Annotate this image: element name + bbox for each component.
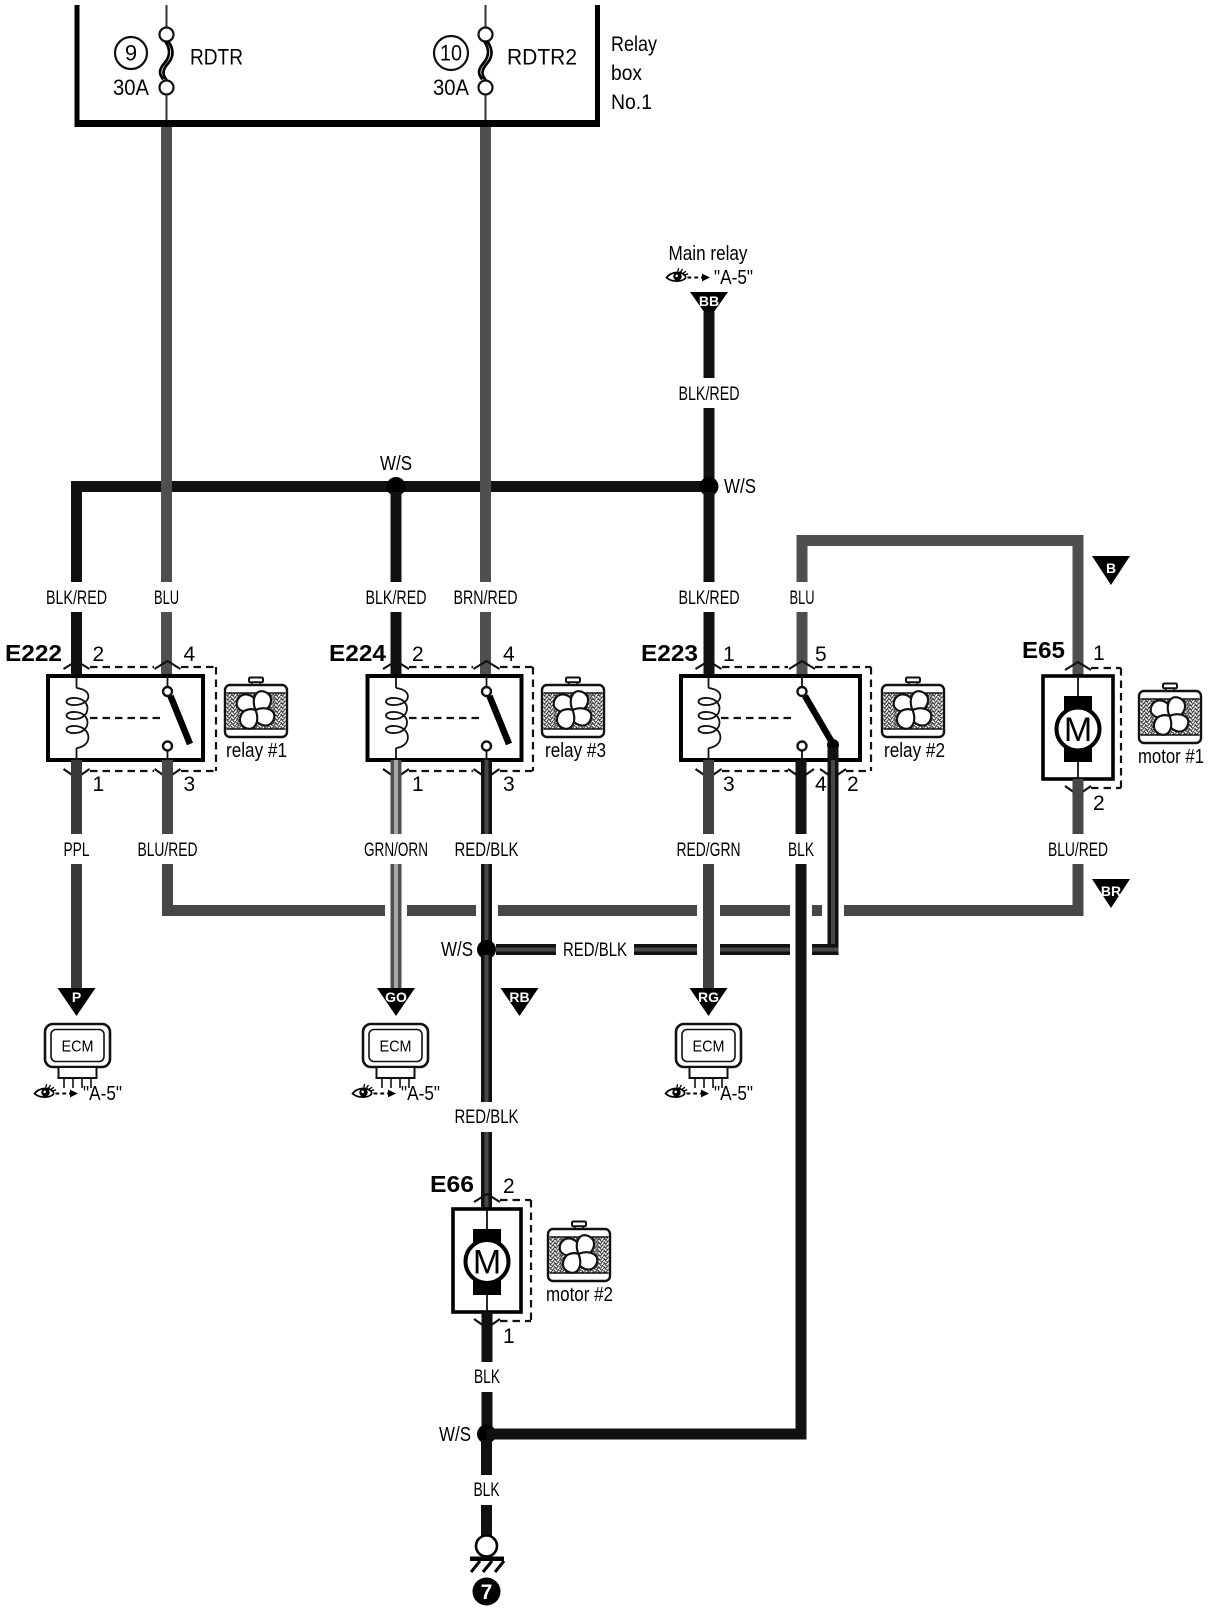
svg-text:BR: BR [1101,883,1121,899]
svg-text:M: M [1064,711,1092,749]
wire BLK/RED bus to E223 pin 1 [704,492,715,582]
wire BLU/RED E65 pin 2 down to bus [1073,779,1084,834]
svg-text:W/S: W/S [724,476,756,498]
svg-text:RB: RB [509,989,529,1005]
svg-text:M: M [473,1244,501,1282]
svg-text:No.1: No.1 [611,91,652,114]
relay box No.1 outline [75,5,601,127]
svg-text:"A-5": "A-5" [714,1083,753,1105]
fuse 9 RDTR 30A [113,5,243,120]
svg-text:GRN/ORN: GRN/ORN [364,840,428,861]
connector triangle RG [690,988,728,1016]
svg-text:E222: E222 [5,640,62,666]
svg-text:"A-5": "A-5" [83,1083,122,1105]
svg-text:4: 4 [184,643,196,666]
svg-text:relay #2: relay #2 [884,740,945,762]
wire BLU/RED E222 pin 3 to bus [162,760,173,834]
ECM (left) [45,1024,110,1067]
connector E224 dashed outline [383,661,533,778]
svg-text:RED/BLK: RED/BLK [455,1107,519,1128]
svg-text:ECM: ECM [380,1039,412,1056]
svg-text:BLU/RED: BLU/RED [1048,840,1108,861]
svg-text:RDTR2: RDTR2 [507,45,577,70]
connector E223 dashed outline [696,661,872,778]
svg-text:4: 4 [503,643,515,666]
wire BLK/RED bus to E224 pin 2 [391,492,402,582]
wire GRN/ORN E224 pin 1 to GO [391,760,402,834]
ECM (middle) [363,1024,428,1067]
svg-text:P: P [72,989,81,1005]
svg-text:RED/GRN: RED/GRN [677,840,741,861]
ECM left reference A-5 [35,1083,123,1105]
svg-text:"A-5": "A-5" [714,267,753,289]
svg-text:E65: E65 [1022,637,1065,663]
svg-text:BLK: BLK [474,1367,500,1388]
wire RED/BLK E224 pin 3 to W/S junction [481,760,492,834]
svg-text:ECM: ECM [62,1039,94,1056]
svg-text:BB: BB [699,293,719,309]
connector triangle B [1092,556,1130,585]
ECM (right) [676,1024,741,1067]
svg-text:1: 1 [723,643,735,666]
svg-text:BLK/RED: BLK/RED [679,588,740,609]
svg-text:3: 3 [723,773,735,796]
connector triangle GO [377,988,415,1016]
svg-text:motor #1: motor #1 [1138,746,1204,768]
wire BLK ground bus horizontal [487,1429,807,1440]
svg-text:2: 2 [412,643,424,666]
relay box No.1 label [611,33,657,114]
svg-text:3: 3 [503,773,515,796]
svg-text:Relay: Relay [611,33,657,56]
svg-text:BLU: BLU [790,588,815,609]
ECM middle reference A-5 [353,1083,441,1105]
svg-text:BLK/RED: BLK/RED [46,588,107,609]
svg-text:RED/BLK: RED/BLK [563,940,627,961]
connector E65 dashed outline [1065,662,1121,795]
svg-text:BLK/RED: BLK/RED [679,384,740,405]
relay E222 (relay #1) [48,676,203,760]
radiator fan icon motor #1 [1139,684,1201,744]
svg-text:W/S: W/S [441,939,473,961]
svg-text:motor #2: motor #2 [546,1284,613,1306]
main relay reference note [667,243,754,289]
svg-text:1: 1 [503,1325,515,1348]
svg-text:1: 1 [1093,642,1105,665]
junction W/S (left, at E224 column) [380,453,412,496]
svg-text:2: 2 [1093,792,1105,815]
connector E222 dashed outline [64,661,217,778]
svg-text:"A-5": "A-5" [401,1083,440,1105]
svg-text:E224: E224 [329,640,386,666]
svg-text:E223: E223 [641,640,698,666]
svg-text:30A: 30A [113,75,149,100]
wire PPL E222 pin 1 to P [71,760,82,834]
svg-text:9: 9 [125,41,137,66]
svg-text:ECM: ECM [693,1039,725,1056]
svg-text:BRN/RED: BRN/RED [454,588,518,609]
connector triangle BB (from main relay) [690,292,728,319]
motor E66 (motor #2) [453,1209,521,1312]
svg-text:W/S: W/S [439,1424,471,1446]
motor E65 (motor #1) [1043,676,1113,779]
svg-text:box: box [611,62,642,85]
wire BLK E66 pin 1 down [482,1312,493,1362]
svg-text:relay #1: relay #1 [226,740,287,762]
svg-text:B: B [1106,560,1116,576]
connector triangle BR [1092,879,1130,908]
svg-text:4: 4 [815,773,827,796]
svg-text:RDTR: RDTR [190,45,243,70]
wire RED/BLK horizontal junction to E223 pin 2 [496,944,556,955]
radiator fan icon relay #2 [882,678,944,738]
radiator fan icon relay #1 [225,678,287,738]
svg-text:PPL: PPL [64,840,90,861]
svg-text:E66: E66 [430,1171,474,1197]
relay E223 (relay #2) [681,676,860,760]
connector triangle RB [501,988,539,1016]
svg-text:30A: 30A [433,75,469,100]
ECM right reference A-5 [666,1083,754,1105]
wire BLU fuse 9 to E222 pin 4 [161,127,172,582]
svg-text:5: 5 [815,643,827,666]
svg-text:GO: GO [385,989,407,1005]
svg-text:2: 2 [93,643,105,666]
wire RED/BLK junction down to E66 pin 2 [481,955,492,1102]
ground symbol [470,1536,504,1573]
wire BLK/RED bus to E222 pin 2 [71,481,82,582]
wire RED/BLK E223 pin 2 vertical [828,748,839,944]
svg-text:1: 1 [412,773,424,796]
radiator fan icon relay #3 [542,678,604,738]
wire BLU E223 pin 5 up and over to E65 pin 1 [797,535,808,582]
svg-text:BLU/RED: BLU/RED [138,840,198,861]
svg-text:BLK: BLK [474,1480,500,1501]
svg-text:Main relay: Main relay [669,243,748,265]
svg-text:BLK/RED: BLK/RED [366,588,427,609]
svg-text:BLU: BLU [154,588,179,609]
svg-text:7: 7 [481,1581,493,1604]
fuse 10 RDTR2 30A [433,5,577,120]
svg-text:3: 3 [184,773,196,796]
wire BLK/RED from BB to W/S junction [704,312,715,378]
svg-text:2: 2 [503,1175,515,1198]
relay E224 (relay #3) [368,676,522,760]
svg-text:2: 2 [847,773,859,796]
connector E66 dashed outline [474,1194,531,1328]
junction W/S (lower) [441,939,496,961]
wire BLU/RED horizontal bus to E65 pin 2 [162,905,385,916]
svg-text:1: 1 [93,773,105,796]
wire RED/GRN E223 pin 3 to RG [703,760,714,834]
wire BLK junction down to ground [481,1440,492,1475]
svg-text:10: 10 [440,41,462,66]
radiator fan icon motor #2 [548,1222,610,1282]
svg-text:BLK: BLK [788,840,814,861]
wire BLK E223 pin 4 down to ground bus [796,760,807,834]
svg-text:W/S: W/S [380,453,412,475]
wire BRN/RED fuse 10 to E224 pin 4 [480,127,491,582]
ground point 7 [473,1578,501,1606]
junction W/S (ground bus) [439,1424,496,1446]
connector triangle P [58,988,96,1016]
wire W/S bus horizontal [71,481,709,492]
svg-text:RG: RG [698,989,719,1005]
junction W/S (right, at E223 column) [700,476,757,498]
svg-text:RED/BLK: RED/BLK [455,840,519,861]
svg-text:relay #3: relay #3 [545,740,606,762]
